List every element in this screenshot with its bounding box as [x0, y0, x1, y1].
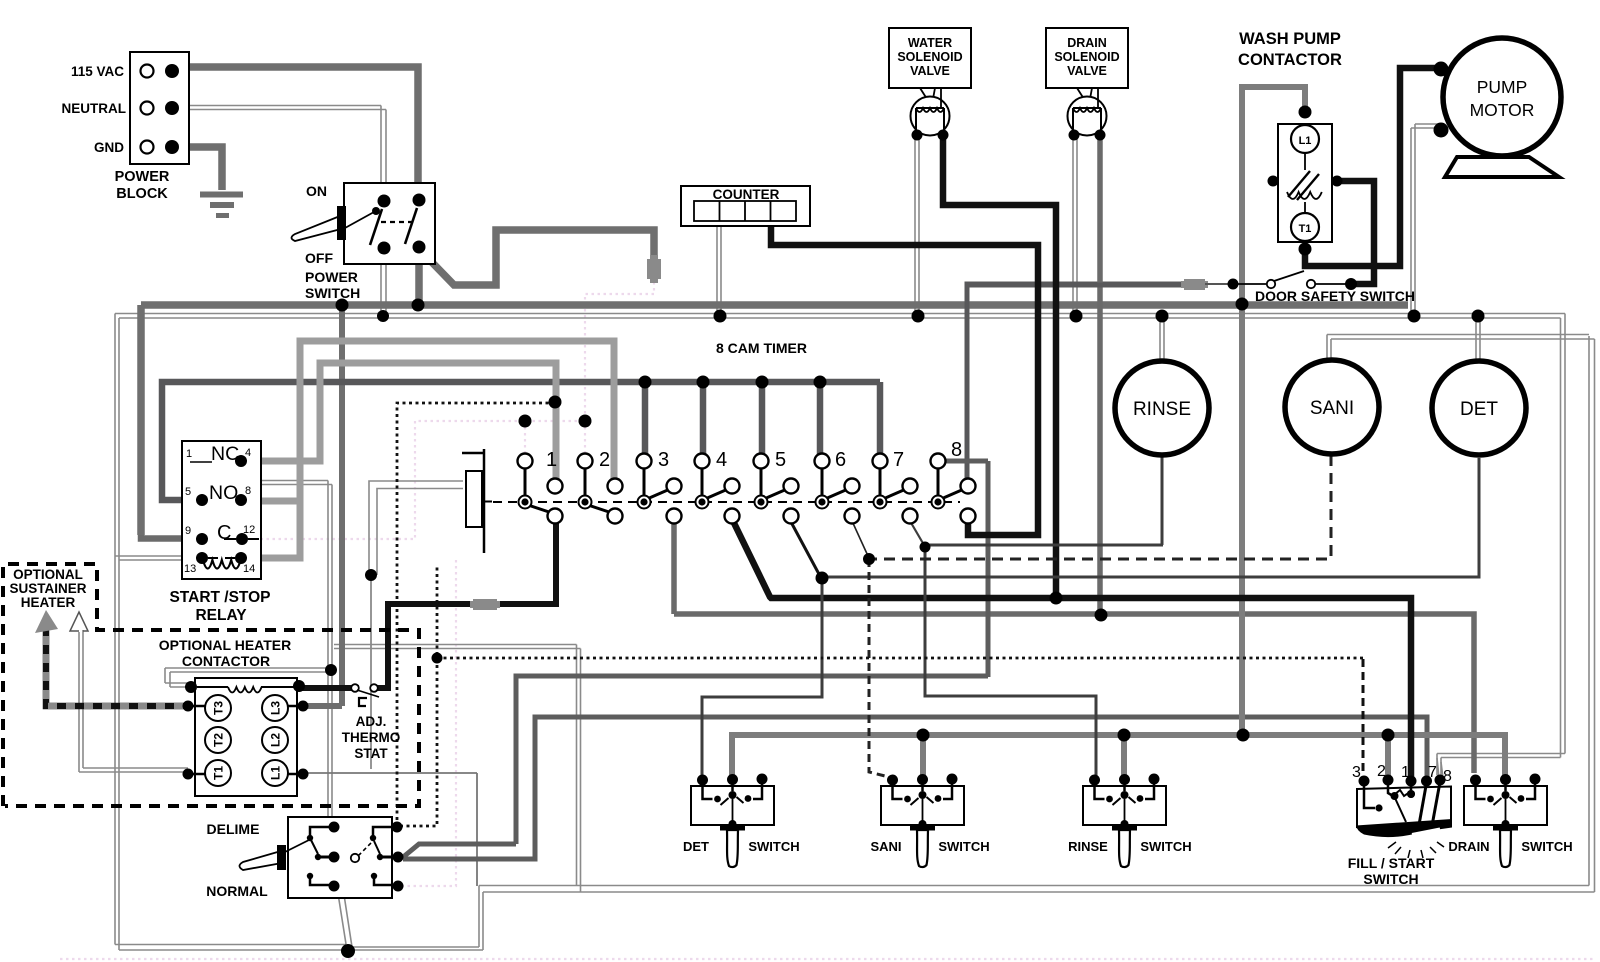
wire door-safety branch to cam S8 upper contact — [967, 284, 1184, 479]
svg-text:MOTOR: MOTOR — [1470, 100, 1535, 120]
wire 8-cam bus from relay NO pin5 — [162, 382, 880, 500]
svg-text:DRAIN: DRAIN — [1067, 36, 1107, 50]
svg-text:13: 13 — [184, 563, 196, 575]
svg-text:NEUTRAL: NEUTRAL — [62, 101, 127, 116]
FILL / START switch — [1348, 763, 1452, 887]
junction dots on y735 bus — [917, 729, 1395, 742]
door safety switch — [1228, 271, 1415, 304]
DET indicator lamp — [1432, 361, 1526, 455]
svg-text:OPTIONAL HEATER: OPTIONAL HEATER — [159, 637, 292, 653]
splice connector on power switch wire — [647, 255, 661, 283]
svg-text:WASH PUMP: WASH PUMP — [1239, 30, 1341, 48]
wire relay coil pin14 to cam S2 upper contact (silver) — [241, 341, 614, 558]
svg-text:T1: T1 — [212, 766, 226, 780]
svg-text:3: 3 — [1352, 764, 1361, 781]
wire black: S1 lower to thermostat and heater coil — [302, 523, 556, 688]
svg-text:GND: GND — [94, 140, 124, 155]
svg-text:SOLENOID: SOLENOID — [1054, 50, 1119, 64]
svg-text:OPTIONAL: OPTIONAL — [13, 567, 83, 582]
svg-text:RINSE: RINSE — [1133, 399, 1191, 420]
drain solenoid valve — [1046, 28, 1128, 141]
cam timer motor bracket — [462, 449, 484, 553]
svg-text:NORMAL: NORMAL — [206, 883, 268, 899]
svg-text:SWITCH: SWITCH — [748, 839, 799, 854]
svg-text:T3: T3 — [212, 701, 226, 715]
wire white pair: neutral left drop to relay coil, timer motor, heater T1, bottom loop — [79, 314, 1595, 951]
wire fine-dotted: delime branch to dotted bus y658 and FILL-3 — [400, 565, 1363, 826]
svg-text:T2: T2 — [212, 733, 226, 747]
svg-text:VALVE: VALVE — [910, 64, 950, 78]
DET SWITCH toggle switch — [683, 774, 800, 868]
junction dots on neutral white bus — [377, 310, 1485, 323]
svg-text:ON: ON — [306, 183, 327, 199]
svg-text:7: 7 — [893, 449, 904, 471]
svg-text:SUSTAINER: SUSTAINER — [9, 581, 86, 596]
wire L3 heater contactor from bus junction — [303, 305, 342, 706]
splice connector on S1-thermostat wire — [470, 599, 500, 610]
svg-text:SWITCH: SWITCH — [1140, 839, 1191, 854]
svg-text:5: 5 — [185, 486, 191, 498]
wire 115VAC hot: power block to power switch — [176, 67, 418, 194]
wire white pair: delime to bottom bus — [333, 862, 352, 947]
svg-text:T1: T1 — [1299, 223, 1312, 235]
cam timer common dashed line — [484, 501, 492, 503]
wire dashed: SANI lamp to S6 junction — [852, 455, 1331, 777]
svg-text:2: 2 — [1377, 763, 1386, 780]
svg-text:8: 8 — [245, 485, 251, 497]
svg-text:L1: L1 — [1299, 135, 1312, 147]
wire white pair: counter, water valve, rinse-sani-det lamp tops, pump motor neutral — [717, 124, 1480, 363]
svg-text:THERMO: THERMO — [342, 730, 401, 745]
junction dots on main gray bus y305 — [336, 298, 1249, 312]
water solenoid valve — [889, 28, 971, 141]
sustainer heater white outline arrow — [70, 612, 88, 631]
wire drain solenoid to gray lamp bus y614 — [674, 137, 1474, 773]
svg-text:7: 7 — [1428, 764, 1437, 781]
cam switch 1 — [518, 454, 563, 524]
svg-text:VALVE: VALVE — [1067, 64, 1107, 78]
svg-text:ADJ.: ADJ. — [356, 714, 387, 729]
wire relay C pin9 drop from bus — [141, 535, 202, 539]
cam switch 3 — [637, 454, 682, 524]
svg-text:1: 1 — [546, 449, 557, 471]
wire switched hot: power switch to main gray bus — [141, 252, 1408, 535]
wire delime to FILL-7 via y717 — [403, 717, 1427, 859]
svg-text:HEATER: HEATER — [21, 595, 76, 610]
wire fine-dotted: delime to relay pin12 silver junction — [397, 403, 555, 826]
svg-text:6: 6 — [835, 449, 846, 471]
svg-text:FILL / START: FILL / START — [1348, 855, 1435, 871]
wire black: contactor right contact to door safety switch — [1340, 181, 1374, 284]
cam switch 4 — [695, 454, 740, 524]
RINSE indicator lamp — [1115, 361, 1209, 455]
svg-text:CONTACTOR: CONTACTOR — [1238, 51, 1342, 69]
svg-text:SWITCH: SWITCH — [1521, 839, 1572, 854]
delime/normal switch — [206, 817, 403, 899]
svg-text:L3: L3 — [269, 701, 283, 715]
wire thin link splice to door switch contact — [1205, 283, 1228, 285]
SANI indicator lamp — [1285, 360, 1379, 454]
counter — [681, 186, 810, 226]
svg-text:START /STOP: START /STOP — [169, 589, 270, 606]
svg-text:L2: L2 — [269, 733, 283, 747]
power block labels — [62, 64, 170, 202]
svg-text:CONTACTOR: CONTACTOR — [182, 653, 270, 669]
svg-text:SANI: SANI — [870, 839, 901, 854]
junction dots on 8-cam feed bus y382 — [639, 376, 827, 389]
start/stop relay K1 — [169, 441, 270, 624]
svg-text:2: 2 — [599, 449, 610, 471]
wire white single: heater L1 to bottom pair — [304, 773, 477, 886]
wash pump contactor U1 — [1238, 30, 1342, 256]
svg-text:RINSE: RINSE — [1068, 839, 1108, 854]
svg-text:DELIME: DELIME — [207, 821, 260, 837]
cam switch 8 — [931, 454, 976, 524]
svg-text:POWER: POWER — [305, 269, 358, 285]
power switch S1 ON/OFF — [292, 183, 436, 301]
svg-text:1: 1 — [186, 448, 192, 460]
svg-text:DET: DET — [1460, 399, 1498, 420]
wire dashed: dotted bus to FILL-3 — [1362, 659, 1365, 777]
svg-text:5: 5 — [775, 449, 786, 471]
ADJ THERMO STAT label — [342, 714, 401, 761]
RINSE SWITCH toggle switch — [1068, 774, 1192, 868]
wire switched hot diagonal to splice connector — [421, 230, 654, 285]
svg-text:RELAY: RELAY — [195, 607, 247, 624]
SANI SWITCH toggle switch — [870, 774, 989, 868]
svg-text:POWER: POWER — [115, 169, 170, 185]
wire black: water solenoid to S4 output bus — [943, 137, 1056, 598]
cam switch 2 — [578, 454, 623, 524]
wire relay NC pin4 to cam S1 upper contact (silver) — [241, 363, 556, 479]
ground symbol — [200, 195, 243, 216]
wire delime to S8 top via y677 — [402, 461, 988, 858]
svg-text:SWITCH: SWITCH — [938, 839, 989, 854]
DRAIN SWITCH toggle switch — [1448, 774, 1572, 868]
junction dots lamp nets — [432, 396, 1108, 664]
svg-text:14: 14 — [243, 563, 255, 575]
wire pump contactor L1 feed from x1242 — [1242, 87, 1305, 735]
pump motor M1 — [1434, 38, 1562, 177]
cam switch 7 — [873, 454, 918, 524]
wire gray bus y735: DET/SANI/RINSE/FILL2/DRAIN switch commons — [732, 735, 1505, 779]
power block — [130, 52, 189, 164]
svg-text:DOOR SAFETY SWITCH: DOOR SAFETY SWITCH — [1255, 288, 1415, 304]
cam switch 5 — [754, 454, 799, 524]
wire black S4 output bus y598 to FILL-1 — [734, 523, 1411, 777]
wire thin: RINSE lamp to S7 junction and RINSE switch — [910, 457, 1163, 776]
junction dots misc — [325, 569, 377, 958]
wire white pair: FILL-8 drop — [1437, 758, 1443, 778]
svg-text:4: 4 — [716, 449, 727, 471]
wire door safety to splice (gray segment) — [967, 283, 1184, 288]
cam switch 6 — [815, 454, 860, 524]
optional heater dashed enclosure box — [3, 564, 419, 806]
svg-text:NO: NO — [209, 482, 238, 504]
svg-text:STAT: STAT — [354, 746, 388, 761]
wire white pair: heater contactor coil feed — [165, 481, 332, 828]
sustainer heater striped wire with gray arrowhead — [35, 610, 188, 706]
svg-text:DET: DET — [683, 839, 709, 854]
svg-text:L1: L1 — [269, 766, 283, 780]
svg-text:PUMP: PUMP — [1477, 77, 1528, 97]
svg-text:3: 3 — [658, 449, 669, 471]
svg-text:DRAIN: DRAIN — [1448, 839, 1489, 854]
svg-text:NC: NC — [211, 443, 239, 465]
optional sustainer heater label — [9, 567, 86, 610]
thermostat ADJ THERMO STAT switch — [351, 684, 379, 706]
wire black: wash pump contactor T1 to pump motor — [1305, 68, 1437, 266]
svg-text:SWITCH: SWITCH — [1363, 871, 1418, 887]
svg-text:OFF: OFF — [305, 250, 333, 266]
svg-text:SWITCH: SWITCH — [305, 285, 360, 301]
wire light-pink dotted net: splice to relay pin12 and cam S1/S2 tops — [60, 282, 1595, 959]
wire white pair: timer enclosure lines — [334, 645, 581, 893]
wire S5 arm diagonal — [791, 522, 820, 576]
wire GND: power block to ground symbol — [176, 147, 222, 190]
svg-text:8: 8 — [1443, 768, 1452, 785]
wire black: counter to S8 lower contact — [771, 226, 1038, 535]
svg-text:9: 9 — [185, 525, 191, 537]
svg-text:115 VAC: 115 VAC — [71, 64, 124, 79]
svg-text:8: 8 — [951, 439, 962, 461]
svg-text:SANI: SANI — [1310, 398, 1354, 419]
svg-text:4: 4 — [245, 447, 251, 459]
wire thin: DET lamp to S5 junction and DET switch — [702, 458, 1479, 776]
splice connector on door safety wire — [1181, 279, 1208, 290]
svg-text:SOLENOID: SOLENOID — [897, 50, 962, 64]
svg-text:BLOCK: BLOCK — [116, 186, 168, 202]
optional heater contactor K2 — [159, 637, 309, 796]
svg-text:COUNTER: COUNTER — [713, 187, 780, 202]
svg-text:WATER: WATER — [908, 36, 952, 50]
svg-text:1: 1 — [1401, 764, 1410, 781]
svg-text:8 CAM TIMER: 8 CAM TIMER — [716, 340, 807, 356]
svg-text:C: C — [217, 522, 231, 544]
wire white pair: neutral bus from power block across top — [115, 106, 1565, 776]
